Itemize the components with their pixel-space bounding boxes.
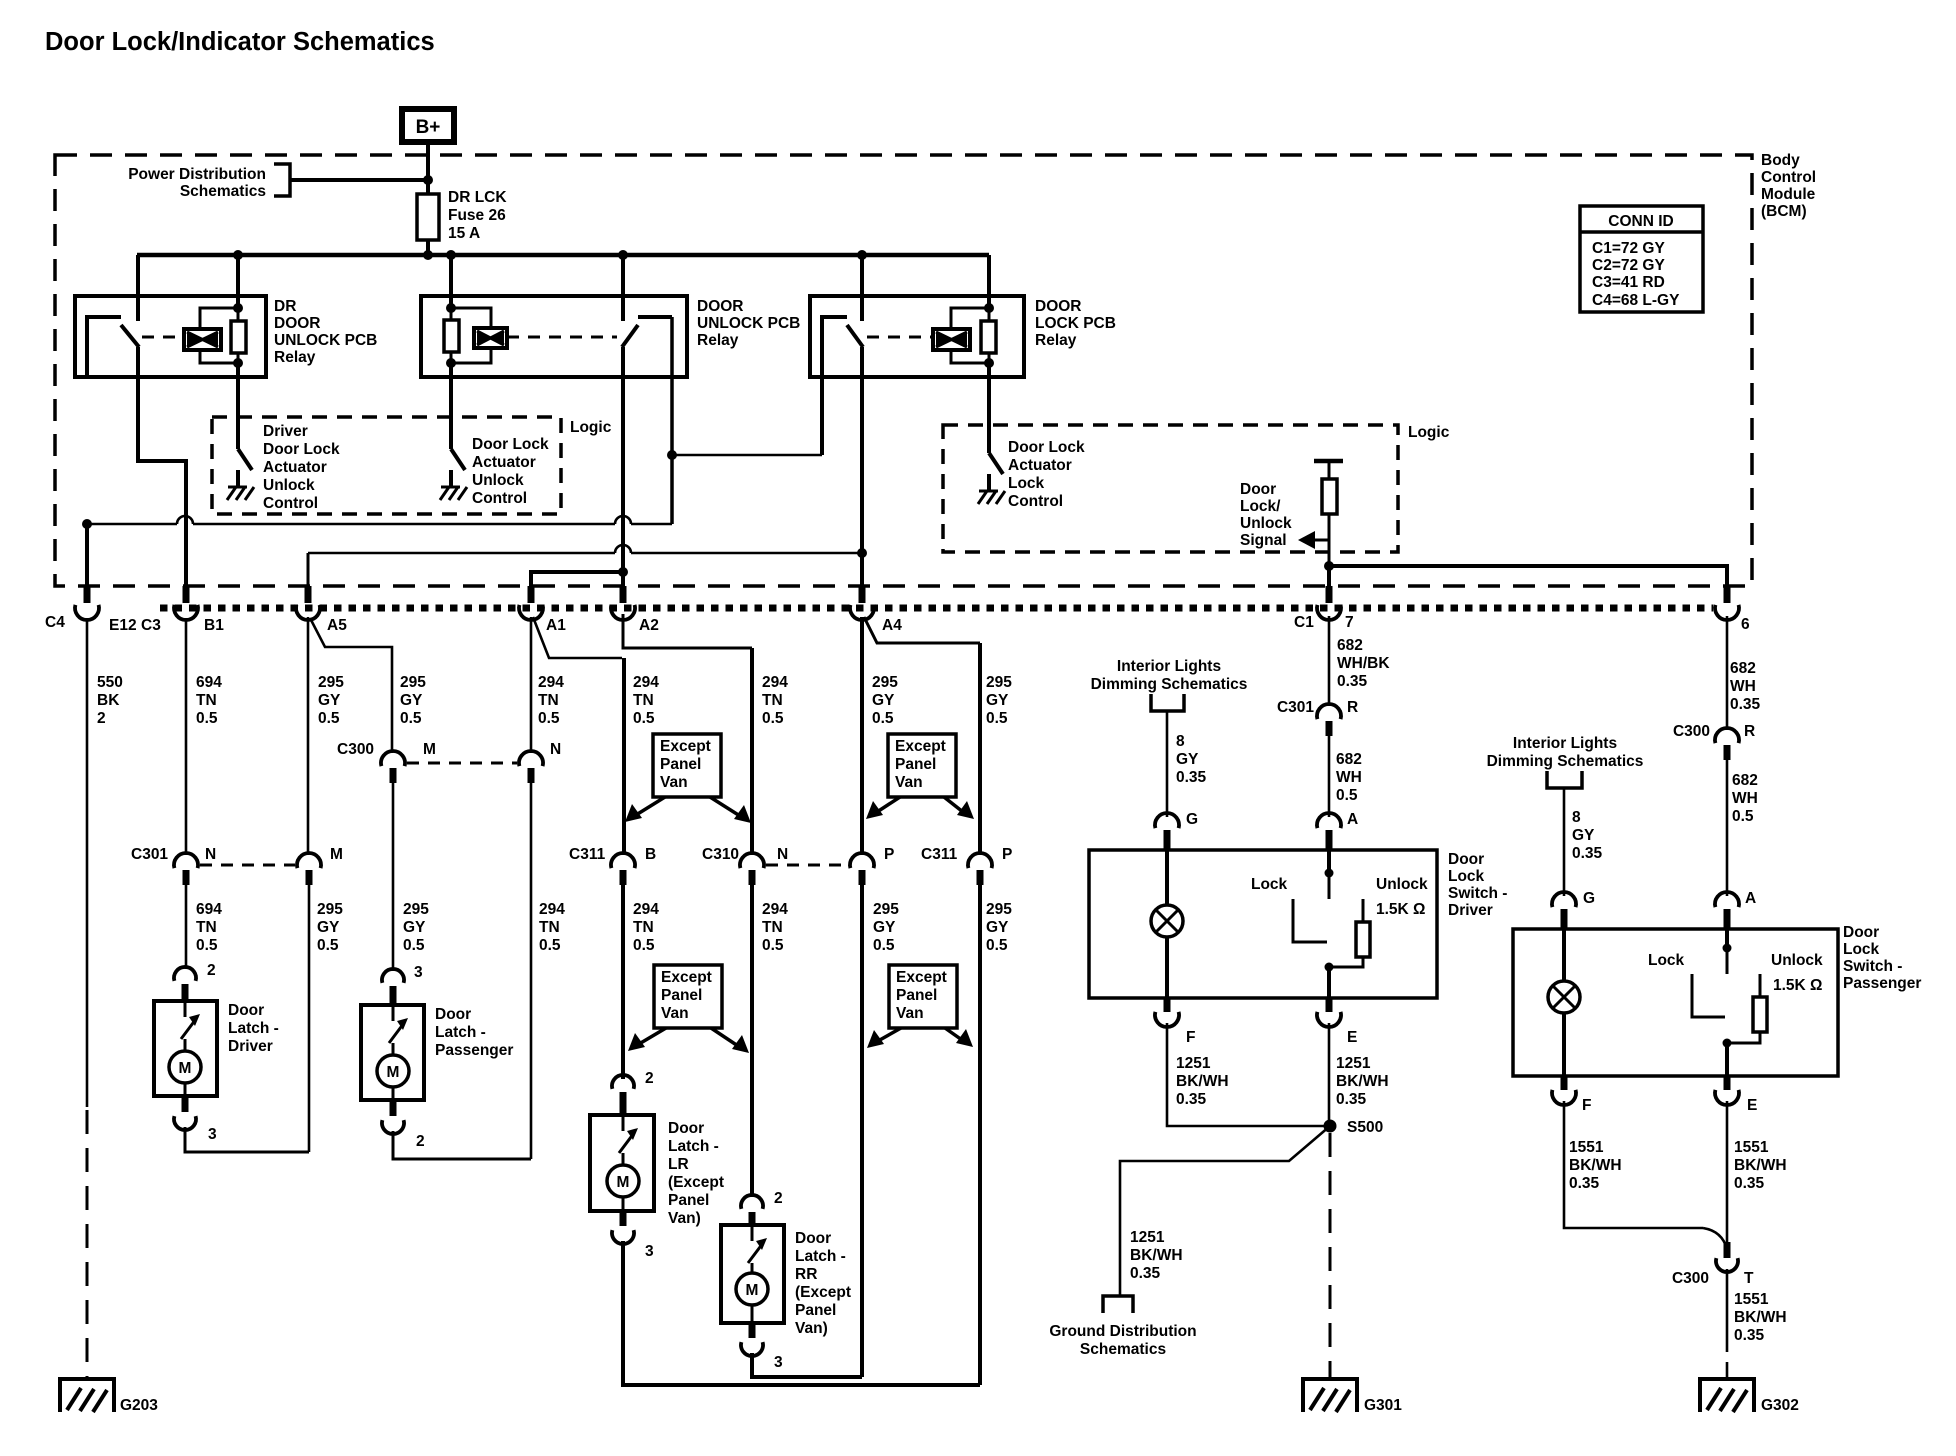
svg-text:295: 295 [317,901,343,918]
passenger switch lock contact [1692,974,1725,1017]
relay K1 DR DOOR UNLOCK PCB Relay box [75,296,266,377]
passenger switch lamp [1562,929,1566,981]
svg-text:0.5: 0.5 [986,937,1008,954]
BCM dashed box [55,155,1752,586]
svg-text:Van: Van [895,774,923,791]
svg-text:0.5: 0.5 [539,937,561,954]
svg-text:Door: Door [1448,851,1484,868]
svg-text:Latch -: Latch - [228,1020,279,1037]
svg-text:A2: A2 [639,617,659,634]
svg-text:Control: Control [1761,169,1816,186]
relay3 switch arm [847,325,863,347]
relay3 coil symbol [933,329,970,350]
svg-text:Unlock: Unlock [472,472,524,489]
svg-text:0.5: 0.5 [538,710,560,727]
connector G passenger switch [1552,892,1576,907]
wire LR pin3 bottom loop [623,1241,980,1385]
svg-text:BK/WH: BK/WH [1130,1247,1183,1264]
except panel van box 1 [653,734,721,797]
svg-text:C301: C301 [131,846,168,863]
svg-text:BK/WH: BK/WH [1734,1309,1787,1326]
wire 294 TN A2 jog to C310 N [623,614,752,648]
wire A5/A4 net y553 [308,552,615,555]
svg-text:1551: 1551 [1734,1291,1769,1308]
svg-text:Except: Except [895,738,946,755]
B+ terminal [402,109,454,142]
svg-text:2: 2 [774,1190,783,1207]
svg-text:694: 694 [196,901,222,918]
svg-text:C300: C300 [337,741,374,758]
svg-text:N: N [550,741,561,758]
C301 dashed link [200,864,295,867]
svg-text:Van): Van) [795,1320,828,1337]
svg-text:LR: LR [668,1156,689,1173]
svg-text:Dimming Schematics: Dimming Schematics [1091,676,1248,693]
svg-text:BK/WH: BK/WH [1176,1073,1229,1090]
svg-text:Driver: Driver [228,1038,273,1055]
svg-text:Control: Control [1008,493,1063,510]
svg-text:C300: C300 [1673,723,1710,740]
svg-text:G: G [1186,811,1198,828]
svg-text:Panel: Panel [896,987,937,1004]
svg-text:M: M [179,1060,192,1077]
svg-text:G302: G302 [1761,1397,1799,1414]
svg-text:694: 694 [196,674,222,691]
svg-text:Switch -: Switch - [1843,958,1902,975]
wire P to RR loop [860,885,864,1377]
CONN ID table [1580,206,1703,312]
BCM connector dotted row [160,605,1713,612]
svg-text:Lock: Lock [1008,475,1045,492]
svg-text:C301: C301 [1277,699,1314,716]
except panel van box 3 [654,965,722,1028]
node at fuse wire [423,175,433,185]
wire 295 GY A5 jog to C300 M [310,618,392,753]
wire relay1 common to C4 [85,524,89,601]
wire 8 GY to switch G [1166,711,1169,817]
svg-text:R: R [1744,723,1755,740]
door latch passenger switch [392,1005,395,1021]
svg-text:Switch -: Switch - [1448,885,1507,902]
wire relay3 switch output to A4 [860,347,864,601]
svg-text:BK: BK [97,692,120,709]
node relay3 coil bottom [984,358,994,368]
wire 694 TN from B1 [185,618,188,855]
relay3 switch fixed piece [822,317,847,455]
driver switch lock contact [1293,899,1327,942]
svg-text:3: 3 [208,1126,217,1143]
svg-text:GY: GY [318,692,341,709]
svg-text:Door: Door [228,1002,264,1019]
connector C300 N [519,751,543,766]
svg-text:294: 294 [633,901,659,918]
connector G driver switch [1155,813,1179,828]
svg-text:TN: TN [633,692,654,709]
svg-text:A: A [1347,811,1358,828]
door latch LR pin 3 [620,1211,627,1226]
svg-text:2: 2 [97,710,106,727]
svg-text:Door: Door [435,1006,471,1023]
connector C300 T [1724,1242,1731,1258]
door latch driver pin 2 [174,967,196,981]
wire 1251 BK/WH from F [1167,1023,1326,1126]
svg-text:0.35: 0.35 [1569,1175,1600,1192]
wire signal to C1-7 [1327,566,1331,601]
svg-text:GY: GY [872,692,895,709]
svg-text:Door Lock: Door Lock [263,441,340,458]
driver switch unlock resistor 1.5K [1362,899,1365,922]
relay3 resistor [988,308,991,363]
svg-text:Passenger: Passenger [1843,975,1921,992]
svg-text:P: P [884,846,894,863]
connector C301 M [297,853,321,868]
svg-text:0.35: 0.35 [1337,673,1368,690]
svg-text:DOOR: DOOR [1035,298,1082,315]
svg-text:N: N [777,846,788,863]
svg-text:G203: G203 [120,1397,158,1414]
wire power dist to fuse wire [290,178,428,182]
svg-text:1.5K Ω: 1.5K Ω [1773,977,1822,994]
connector A driver switch [1317,813,1341,828]
svg-text:Panel: Panel [660,756,701,773]
svg-text:UNLOCK PCB: UNLOCK PCB [274,332,377,349]
svg-text:GY: GY [1176,751,1199,768]
node signal junction [1324,561,1334,571]
svg-text:Panel: Panel [661,987,702,1004]
svg-text:Actuator: Actuator [472,454,536,471]
node bus/fuse [423,250,433,260]
connector C4 pin E12 [84,586,91,603]
svg-text:C3=41 RD: C3=41 RD [1592,274,1665,291]
svg-text:F: F [1582,1097,1591,1114]
svg-text:GY: GY [986,692,1009,709]
svg-text:TN: TN [633,919,654,936]
svg-text:C2=72 GY: C2=72 GY [1592,257,1665,274]
svg-text:294: 294 [539,901,565,918]
svg-text:WH: WH [1730,678,1756,695]
svg-text:Lock: Lock [1251,876,1288,893]
svg-text:0.5: 0.5 [400,710,422,727]
wire C311 B to LR latch [621,885,625,1079]
connector pin A1 [528,586,535,603]
C300 dashed link [407,762,517,765]
svg-text:BK/WH: BK/WH [1336,1073,1389,1090]
wire C301 M to driver latch pin3 loop [308,885,311,1152]
svg-text:GY: GY [317,919,340,936]
svg-text:M: M [746,1282,759,1299]
connector C1 pin 7 [1326,586,1333,603]
door latch passenger box [361,1005,424,1100]
wire 295 GY from A5 left [307,617,310,855]
svg-text:295: 295 [400,674,426,691]
relay3 actuation dashed link [867,336,933,339]
svg-text:GY: GY [400,692,423,709]
svg-text:T: T [1744,1270,1754,1287]
svg-text:3: 3 [774,1354,783,1371]
wire 1551 BK/WH from F passenger [1564,1101,1703,1228]
svg-text:Van: Van [896,1005,924,1022]
svg-text:Control: Control [472,490,527,507]
wire 682 WH to switch A [1328,736,1331,817]
svg-text:Fuse 26: Fuse 26 [448,207,506,224]
ground G301 [1303,1379,1357,1412]
logic dashed box 2 [943,425,1398,552]
svg-text:C1: C1 [1294,614,1314,631]
wire relay1 coil drop [236,255,240,308]
svg-text:Van): Van) [668,1210,701,1227]
wire 294 TN from A1 to C300 N [530,617,533,753]
svg-text:B+: B+ [416,117,441,138]
wire C311 P to LR loop [978,885,982,1385]
svg-text:A4: A4 [882,617,902,634]
node relay1 coil bottom [233,358,243,368]
node relay2/relay3 common [667,450,677,460]
svg-text:BK/WH: BK/WH [1569,1157,1622,1174]
relay2 resistor [450,308,453,363]
wire 294 TN A1 jog to C311 B [533,617,622,658]
svg-text:Door Lock: Door Lock [1008,439,1085,456]
svg-text:GY: GY [873,919,896,936]
node relay2 output / A1 jog [618,567,628,577]
svg-text:C4: C4 [45,614,65,631]
svg-text:Panel: Panel [795,1302,836,1319]
wire driver latch pin3 loop [185,1127,309,1152]
relay2 switch fixed piece [638,315,672,319]
svg-text:Except: Except [661,969,712,986]
svg-text:Door: Door [795,1230,831,1247]
connector P [850,853,874,868]
node bus relay3 contact [857,250,867,260]
wire signal to connector 6 [1329,566,1727,601]
node bus relay1 coil [233,250,243,260]
wire relay3 common link y455 [672,454,822,457]
relay1 switch fixed piece [87,317,121,377]
svg-text:G: G [1583,890,1595,907]
svg-text:GY: GY [1572,827,1595,844]
svg-text:Control: Control [263,495,318,512]
svg-text:E: E [1347,1029,1357,1046]
svg-text:TN: TN [196,919,217,936]
svg-text:S500: S500 [1347,1119,1383,1136]
wire common net y524 [82,519,92,529]
svg-text:294: 294 [762,901,788,918]
wire 1551 BK/WH to G302 [1726,1269,1729,1352]
svg-text:0.35: 0.35 [1734,1175,1765,1192]
svg-text:1251: 1251 [1130,1229,1165,1246]
relay2 switch arm [622,325,638,347]
svg-text:0.35: 0.35 [1730,696,1761,713]
door latch driver box [154,1001,217,1096]
svg-text:N: N [205,846,216,863]
svg-text:R: R [1347,699,1358,716]
wire relay2 coil drop [449,255,453,308]
wire B+ to bus [426,145,430,255]
svg-text:M: M [330,846,343,863]
logic dashed box 1 [212,417,561,514]
svg-text:Except: Except [896,969,947,986]
svg-text:E: E [1747,1097,1757,1114]
svg-text:GY: GY [403,919,426,936]
svg-text:Door Lock: Door Lock [472,436,549,453]
svg-text:Door: Door [1240,481,1276,498]
node relay2 coil bottom [446,358,456,368]
connector pin 6 [1724,586,1731,603]
door latch driver pin 3 [182,1096,189,1112]
svg-text:294: 294 [538,674,564,691]
svg-text:0.35: 0.35 [1176,1091,1207,1108]
relay K3 DOOR LOCK PCB Relay box [810,296,1024,377]
svg-text:682: 682 [1337,637,1363,654]
node relay3 output / A5 link [857,548,867,558]
svg-text:TN: TN [762,692,783,709]
svg-text:0.5: 0.5 [196,937,218,954]
relay K2 DOOR UNLOCK PCB Relay box [421,296,687,377]
wire RR pin3 loop [752,1353,862,1377]
svg-text:0.5: 0.5 [873,937,895,954]
wire relay3 coil to actuator3 [987,363,991,453]
driver switch lamp [1165,850,1169,905]
wire relay2 switch output [621,347,625,601]
connector F passenger switch [1561,1076,1568,1090]
ground distribution reference [1103,1296,1133,1313]
svg-text:682: 682 [1336,751,1362,768]
wire 682 WH/BK from C1-7 [1328,616,1331,706]
wire 682 WH 0.5 to passenger A [1726,760,1729,896]
svg-text:GY: GY [986,919,1009,936]
svg-text:BK/WH: BK/WH [1734,1157,1787,1174]
svg-text:Lock: Lock [1843,941,1880,958]
svg-text:Relay: Relay [274,349,316,366]
svg-text:CONN ID: CONN ID [1608,213,1673,230]
svg-text:B: B [645,846,656,863]
door latch LR switch [622,1115,625,1131]
svg-text:0.5: 0.5 [403,937,425,954]
relay1 switch arm [121,325,139,347]
svg-text:Interior Lights: Interior Lights [1117,658,1221,675]
svg-text:3: 3 [414,964,423,981]
svg-text:1.5K Ω: 1.5K Ω [1376,901,1425,918]
door latch RR switch [751,1225,754,1241]
connector A passenger switch [1715,892,1739,907]
svg-text:E12: E12 [109,617,137,634]
svg-text:0.5: 0.5 [633,710,655,727]
svg-text:WH: WH [1336,769,1362,786]
svg-text:Dimming Schematics: Dimming Schematics [1487,753,1644,770]
svg-text:8: 8 [1572,809,1581,826]
svg-text:0.35: 0.35 [1130,1265,1161,1282]
svg-text:1551: 1551 [1569,1139,1604,1156]
svg-text:Ground Distribution: Ground Distribution [1049,1323,1196,1340]
svg-text:Logic: Logic [1408,424,1450,441]
wire relay2 coil branch [451,308,491,328]
driver switch common [1327,850,1331,871]
wire relay2 contact drop [621,255,625,321]
svg-text:Relay: Relay [1035,332,1077,349]
svg-text:WH/BK: WH/BK [1337,655,1390,672]
svg-text:0.5: 0.5 [196,710,218,727]
svg-text:TN: TN [762,919,783,936]
door latch LR pin 2 [612,1075,634,1089]
relay1 actuation dashed link [142,336,184,339]
svg-text:(Except: (Except [668,1174,724,1191]
svg-text:M: M [617,1174,630,1191]
svg-text:A1: A1 [546,617,566,634]
svg-text:Door Lock/Indicator Schematics: Door Lock/Indicator Schematics [45,28,435,56]
connector pin A2 [620,586,627,603]
door latch RR pin 3 [749,1323,756,1338]
svg-text:(BCM): (BCM) [1761,203,1807,220]
node bus relay2 coil [446,250,456,260]
svg-text:0.5: 0.5 [318,710,340,727]
svg-text:1251: 1251 [1336,1055,1371,1072]
svg-text:DR: DR [274,298,296,315]
svg-text:Lock/: Lock/ [1240,498,1281,515]
svg-text:C3: C3 [141,617,161,634]
svg-text:0.35: 0.35 [1336,1091,1367,1108]
svg-text:C1=72 GY: C1=72 GY [1592,240,1665,257]
wire 1251 BK/WH from E [1328,1023,1331,1126]
svg-text:295: 295 [873,901,899,918]
svg-text:0.5: 0.5 [317,937,339,954]
ground G203 [60,1379,114,1412]
svg-text:Signal: Signal [1240,532,1287,549]
wire relay1 coil to actuator1 [236,363,240,449]
door latch driver switch [184,1001,187,1017]
svg-text:2: 2 [207,962,216,979]
svg-text:G301: G301 [1364,1397,1402,1414]
svg-text:Panel: Panel [668,1192,709,1209]
svg-text:295: 295 [986,674,1012,691]
svg-text:Interior Lights: Interior Lights [1513,735,1617,752]
svg-text:A5: A5 [327,617,347,634]
svg-text:Latch -: Latch - [668,1138,719,1155]
wire S500 dashed to G301 [1329,1133,1332,1379]
door latch driver motor M [169,1051,201,1083]
wire relay1 coil branch [200,308,238,329]
svg-text:UNLOCK PCB: UNLOCK PCB [697,315,800,332]
wire passenger latch pin2 loop [393,1131,531,1159]
svg-text:C4=68 L-GY: C4=68 L-GY [1592,292,1680,309]
svg-text:TN: TN [538,692,559,709]
wire C300 M to passenger latch [392,783,395,971]
door latch passenger pin 2 [390,1100,397,1116]
svg-text:Actuator: Actuator [1008,457,1072,474]
svg-text:Passenger: Passenger [435,1042,513,1059]
svg-text:8: 8 [1176,733,1185,750]
svg-text:Driver: Driver [1448,902,1493,919]
wire relay1 contact drop [136,255,140,321]
relay1 coil symbol [184,329,221,350]
svg-text:1551: 1551 [1734,1139,1769,1156]
svg-text:0.35: 0.35 [1176,769,1207,786]
wire 295 GY from A4 to P [860,617,864,855]
connector F driver switch [1164,998,1171,1012]
svg-text:M: M [423,741,436,758]
door latch LR box [590,1115,654,1211]
svg-text:TN: TN [196,692,217,709]
svg-text:294: 294 [633,674,659,691]
connector E passenger switch [1724,1076,1731,1090]
svg-text:Lock: Lock [1448,868,1485,885]
svg-text:0.5: 0.5 [762,710,784,727]
svg-text:682: 682 [1730,660,1756,677]
door latch RR motor M [736,1273,768,1305]
door latch passenger motor M [377,1055,409,1087]
svg-text:2: 2 [416,1133,425,1150]
ground G302 [1700,1379,1754,1412]
svg-text:0.5: 0.5 [872,710,894,727]
wire relay3 coil branch [951,308,989,329]
